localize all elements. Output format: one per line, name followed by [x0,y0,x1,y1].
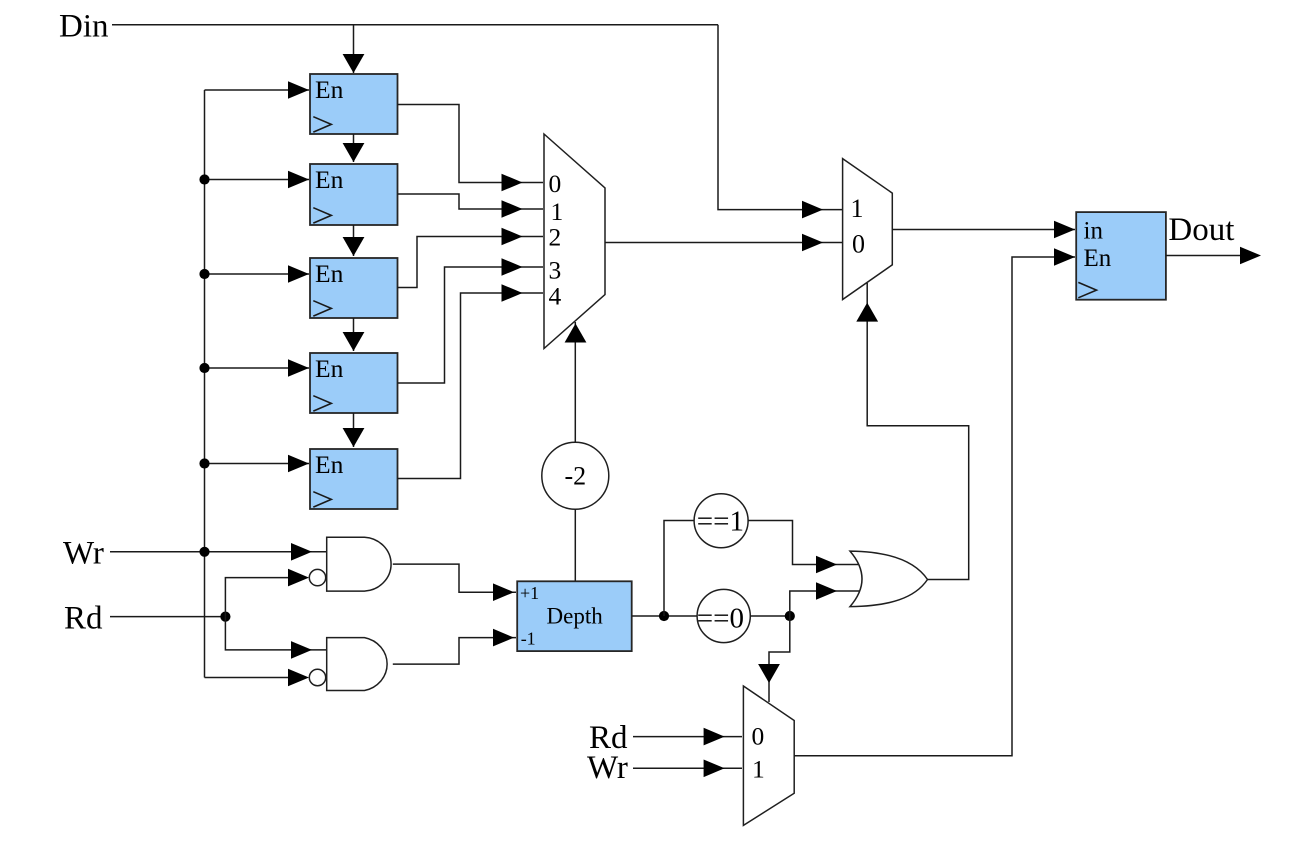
wire ==0 up to or gate G3 [790,591,861,616]
wire M3 out to Rout En [794,257,1075,756]
wire G3 out to mux M2 select [867,283,969,580]
svg-text:1: 1 [752,755,765,784]
register R1 [310,74,398,134]
wire R2 out to mux M1 input 1 [398,194,544,209]
wire ==1 out to or gate G3 [748,521,861,565]
wire Dout output [1166,255,1240,257]
svg-text:-1: -1 [521,629,536,649]
and gate G2 (Rd and not Wr) [309,638,387,691]
junction rail-R3 [199,269,209,279]
counter Depth [517,581,632,651]
wire ==0 out [750,615,790,617]
or gate G3 [850,551,928,607]
wire R1 to R2 [353,134,355,162]
wire rail to gate G2 inverted input [205,677,301,679]
wire Depth to -2 [574,509,576,581]
register R4 [310,353,398,413]
svg-text:0: 0 [752,722,765,751]
svg-text:1: 1 [851,194,864,223]
svg-text:==1: ==1 [697,506,744,538]
wire R4 to R5 [353,413,355,447]
wire M2 out to Rout in [892,229,1075,231]
wire Wr input [110,551,326,553]
svg-text:2: 2 [549,223,562,252]
wire R4 out to mux M1 input 3 [398,267,544,383]
wire R3 to R4 [353,318,355,351]
wire rail to R3 En [205,273,310,275]
svg-text:4: 4 [549,282,562,311]
wire R2 to R3 [353,225,355,256]
svg-text:En: En [315,75,344,104]
wire rail to R5 En [205,463,310,465]
svg-text:En: En [315,259,344,288]
enable rail vertical [204,90,206,678]
wire R3 out to mux M1 input 2 [398,237,544,288]
svg-text:En: En [315,450,344,479]
junction Depth out [659,611,669,621]
const -2 circle [542,442,609,509]
wire Din horizontal bus [112,24,718,26]
svg-text:3: 3 [549,255,562,284]
svg-text:+1: +1 [520,583,539,603]
svg-text:En: En [1084,245,1112,272]
junction rail-R2 [199,174,209,184]
register R5 [310,449,398,509]
wire Rd to M3 input 0 [633,736,742,738]
wire rail to R1 En [205,89,310,91]
wire -2 to mux M1 select [574,322,576,442]
register R2 [310,164,398,225]
wire G2 out to Depth -1 [393,638,516,665]
mux M1 5-to-1 [544,134,605,349]
junction rail-R4 [199,363,209,373]
svg-text:in: in [1084,218,1104,245]
wire Rd input [110,616,225,618]
register Rout [1076,212,1166,300]
comparator ==1 [694,494,748,548]
svg-text:Wr: Wr [587,750,628,786]
mux M2 2-to-1 [843,159,893,300]
svg-text:Wr: Wr [63,535,104,571]
svg-text:==0: ==0 [697,603,744,635]
wire R1 out to mux M1 input 0 [398,105,544,183]
svg-text:En: En [315,165,344,194]
junction ==0 out [785,611,795,621]
register R3 [310,258,398,318]
junction rail-R5 [199,458,209,468]
svg-text:0: 0 [852,229,865,258]
svg-text:-2: -2 [565,462,587,491]
wire mux M1 output to mux M2 input 0 [605,242,842,244]
wire Din drop to R1 with arrowhead [353,25,355,73]
wire Depth out [632,615,697,617]
wire up to ==1 [664,521,694,617]
wire Rd down to gate G2 input [225,617,326,650]
wire Din to mux M2 input 1 [718,25,842,210]
svg-text:Din: Din [59,9,109,45]
wire Rd up to gate G1 inverted input [225,578,300,617]
wire rail to R2 En [205,179,310,181]
svg-text:En: En [315,354,344,383]
junction Wr-rail [199,547,209,557]
svg-text:0: 0 [549,169,562,198]
wire ==0 down to mux M3 select [769,616,790,702]
and gate G1 (Wr and not Rd) [309,537,391,591]
svg-text:Depth: Depth [547,604,604,629]
junction Rd branch [220,612,230,622]
svg-text:Rd: Rd [64,601,103,637]
comparator ==0 [697,589,751,642]
mux M3 2-to-1 [743,686,794,825]
svg-text:Dout: Dout [1168,212,1234,248]
wire Wr to M3 input 1 [633,767,742,769]
wire G1 out to Depth +1 [393,564,516,592]
wire R5 out to mux M1 input 4 [398,293,544,479]
wire rail to R4 En [205,367,310,369]
